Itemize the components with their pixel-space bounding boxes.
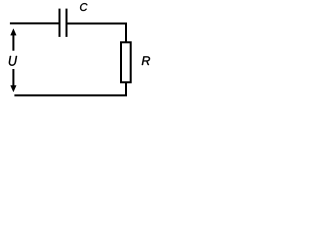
voltage arrow U down head bbox=[11, 86, 17, 92]
capacitor C left plate bbox=[59, 9, 61, 37]
resistor R body bbox=[121, 42, 131, 82]
capacitor value label C bbox=[80, 3, 87, 11]
capacitor C right plate bbox=[66, 9, 68, 37]
voltage arrow U up head bbox=[11, 29, 17, 35]
wire bottom lead from resistor and bottom return wire bbox=[14, 82, 126, 95]
wire top-right segment with corner down to resistor bbox=[67, 24, 127, 43]
voltage arrow U up shaft bbox=[12, 34, 14, 50]
voltage arrow U down shaft bbox=[12, 69, 14, 86]
wire top-left segment bbox=[10, 22, 60, 24]
voltage label U bbox=[9, 56, 17, 66]
resistor value label R bbox=[142, 56, 150, 65]
